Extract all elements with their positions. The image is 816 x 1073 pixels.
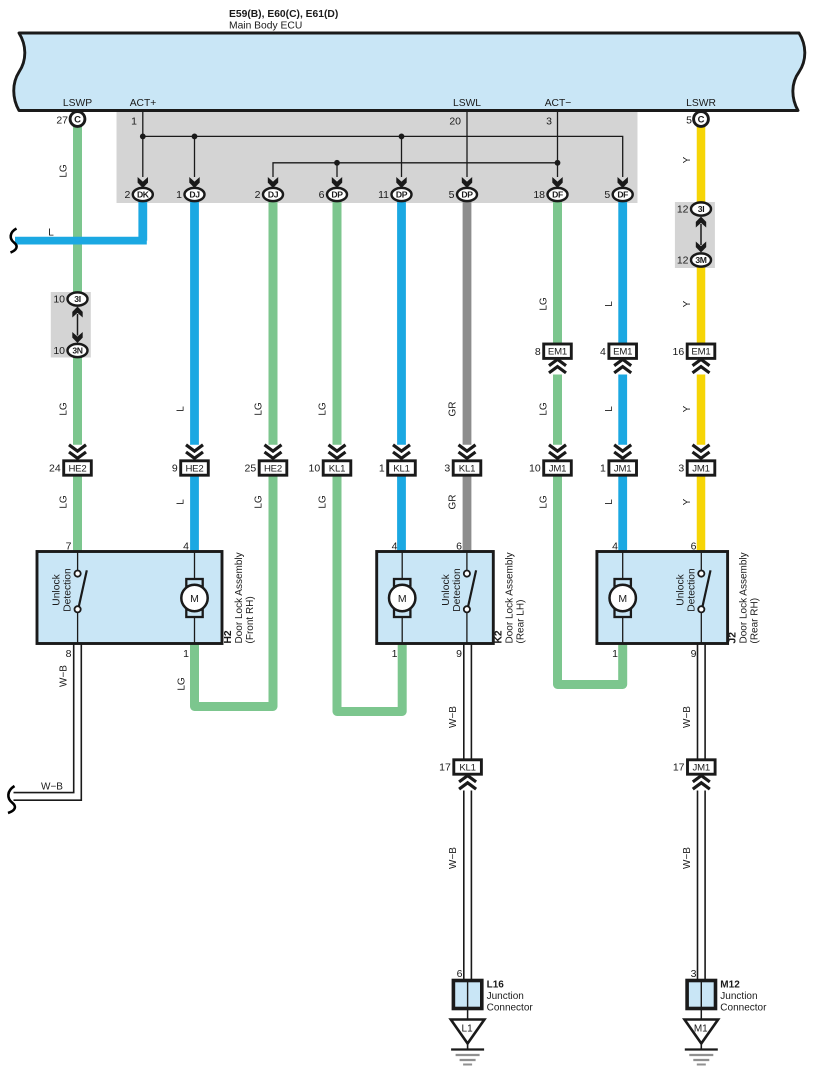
- svg-text:Y: Y: [682, 156, 693, 163]
- svg-text:Detection: Detection: [452, 568, 463, 612]
- svg-text:LSWR: LSWR: [686, 98, 716, 109]
- svg-text:1: 1: [392, 648, 398, 660]
- svg-text:Detection: Detection: [686, 568, 697, 612]
- svg-text:17: 17: [673, 762, 685, 774]
- svg-text:Junction: Junction: [487, 991, 524, 1002]
- svg-text:(Front RH): (Front RH): [245, 596, 256, 643]
- svg-text:DF: DF: [552, 190, 563, 200]
- svg-text:W−B: W−B: [59, 665, 70, 687]
- svg-text:6: 6: [319, 189, 325, 201]
- svg-text:M: M: [618, 593, 627, 605]
- svg-text:W−B: W−B: [448, 706, 459, 728]
- svg-text:4: 4: [183, 541, 189, 553]
- svg-text:KL1: KL1: [459, 463, 475, 474]
- svg-text:L: L: [48, 228, 54, 239]
- svg-text:9: 9: [172, 463, 178, 475]
- svg-text:EM1: EM1: [613, 347, 632, 358]
- svg-text:Detection: Detection: [63, 568, 74, 612]
- svg-text:3I: 3I: [74, 294, 80, 304]
- svg-text:11: 11: [378, 189, 389, 201]
- svg-text:LG: LG: [59, 402, 70, 416]
- svg-text:(Rear LH): (Rear LH): [515, 600, 526, 644]
- svg-text:3: 3: [678, 463, 684, 475]
- svg-text:24: 24: [49, 463, 61, 475]
- svg-text:Door Lock Assembly: Door Lock Assembly: [504, 552, 515, 643]
- svg-text:9: 9: [456, 648, 462, 660]
- svg-text:27: 27: [56, 115, 68, 127]
- svg-text:Connector: Connector: [487, 1003, 534, 1014]
- svg-text:17: 17: [439, 762, 451, 774]
- svg-text:L16: L16: [487, 980, 505, 991]
- svg-text:2: 2: [255, 189, 261, 201]
- svg-text:ACT−: ACT−: [545, 98, 572, 109]
- svg-text:DP: DP: [396, 190, 408, 200]
- svg-text:10: 10: [529, 463, 541, 475]
- svg-text:8: 8: [535, 346, 541, 358]
- svg-text:Y: Y: [682, 300, 693, 307]
- svg-text:LG: LG: [539, 297, 550, 311]
- svg-text:L1: L1: [462, 1024, 474, 1035]
- svg-text:3: 3: [691, 968, 697, 980]
- svg-text:3I: 3I: [698, 204, 704, 214]
- svg-text:EM1: EM1: [548, 347, 567, 358]
- svg-text:W−B: W−B: [41, 782, 63, 793]
- svg-text:4: 4: [600, 346, 606, 358]
- svg-text:LG: LG: [59, 495, 70, 509]
- svg-text:M12: M12: [720, 980, 740, 991]
- svg-text:10: 10: [53, 345, 65, 357]
- svg-text:LSWL: LSWL: [453, 98, 481, 109]
- svg-text:C: C: [74, 114, 81, 125]
- svg-text:W−B: W−B: [448, 847, 459, 869]
- svg-text:20: 20: [449, 116, 461, 128]
- svg-text:JM1: JM1: [549, 463, 567, 474]
- svg-text:5: 5: [449, 189, 455, 201]
- svg-text:DJ: DJ: [268, 190, 279, 200]
- svg-text:W−B: W−B: [682, 706, 693, 728]
- svg-text:W−B: W−B: [682, 847, 693, 869]
- svg-text:12: 12: [677, 255, 689, 267]
- svg-text:4: 4: [392, 541, 398, 553]
- svg-text:Y: Y: [682, 405, 693, 412]
- svg-text:LG: LG: [59, 164, 70, 178]
- svg-text:L: L: [604, 406, 615, 412]
- svg-text:DF: DF: [617, 190, 628, 200]
- svg-text:L: L: [176, 406, 187, 412]
- svg-text:DJ: DJ: [189, 190, 200, 200]
- svg-text:1: 1: [176, 189, 182, 201]
- svg-text:JM1: JM1: [614, 463, 632, 474]
- svg-text:8: 8: [66, 648, 72, 660]
- svg-text:(Rear RH): (Rear RH): [750, 598, 761, 644]
- svg-text:Unlock: Unlock: [675, 573, 686, 605]
- svg-text:2: 2: [124, 189, 130, 201]
- svg-text:KL1: KL1: [393, 463, 409, 474]
- svg-text:16: 16: [673, 346, 685, 358]
- svg-text:LG: LG: [254, 495, 265, 509]
- svg-text:GR: GR: [448, 495, 459, 510]
- svg-text:1: 1: [131, 116, 137, 128]
- svg-text:M: M: [190, 593, 199, 605]
- svg-text:EM1: EM1: [691, 347, 710, 358]
- svg-text:9: 9: [691, 648, 697, 660]
- svg-text:3: 3: [444, 463, 450, 475]
- svg-text:5: 5: [604, 189, 610, 201]
- svg-text:1: 1: [183, 648, 189, 660]
- svg-text:L: L: [176, 499, 187, 505]
- svg-text:5: 5: [686, 115, 692, 127]
- svg-text:L: L: [604, 301, 615, 307]
- svg-text:M1: M1: [694, 1024, 708, 1035]
- svg-text:LG: LG: [539, 402, 550, 416]
- svg-text:10: 10: [53, 294, 65, 306]
- svg-text:K2: K2: [493, 630, 504, 643]
- svg-text:LG: LG: [177, 677, 188, 691]
- svg-text:Door Lock Assembly: Door Lock Assembly: [739, 552, 750, 643]
- svg-text:LG: LG: [254, 402, 265, 416]
- svg-text:DP: DP: [461, 190, 473, 200]
- svg-text:18: 18: [533, 189, 545, 201]
- svg-text:C: C: [698, 114, 705, 125]
- svg-text:1: 1: [600, 463, 606, 475]
- svg-text:KL1: KL1: [329, 463, 345, 474]
- svg-text:Unlock: Unlock: [52, 573, 63, 605]
- svg-text:7: 7: [66, 541, 72, 553]
- svg-text:Y: Y: [682, 498, 693, 505]
- svg-text:25: 25: [245, 463, 257, 475]
- svg-text:Unlock: Unlock: [441, 573, 452, 605]
- svg-text:6: 6: [456, 541, 462, 553]
- svg-text:M: M: [398, 593, 407, 605]
- svg-text:LSWP: LSWP: [63, 98, 92, 109]
- svg-text:Door Lock Assembly: Door Lock Assembly: [234, 552, 245, 643]
- svg-text:3M: 3M: [695, 255, 706, 265]
- svg-text:JM1: JM1: [693, 762, 711, 773]
- svg-text:6: 6: [457, 968, 463, 980]
- svg-text:1: 1: [612, 648, 618, 660]
- svg-text:KL1: KL1: [459, 762, 475, 773]
- svg-text:LG: LG: [318, 495, 329, 509]
- svg-text:1: 1: [379, 463, 385, 475]
- svg-text:LG: LG: [539, 495, 550, 509]
- svg-text:JM1: JM1: [692, 463, 710, 474]
- svg-text:3N: 3N: [72, 346, 82, 356]
- svg-text:6: 6: [691, 541, 697, 553]
- svg-text:10: 10: [309, 463, 321, 475]
- svg-text:12: 12: [677, 204, 689, 216]
- svg-text:LG: LG: [318, 402, 329, 416]
- svg-text:DK: DK: [137, 190, 150, 200]
- svg-text:E59(B), E60(C), E61(D): E59(B), E60(C), E61(D): [229, 9, 338, 20]
- svg-text:J2: J2: [728, 632, 739, 644]
- svg-text:HE2: HE2: [68, 463, 86, 474]
- svg-text:HE2: HE2: [264, 463, 282, 474]
- svg-text:GR: GR: [448, 402, 459, 417]
- svg-text:Main Body ECU: Main Body ECU: [229, 21, 302, 32]
- svg-text:HE2: HE2: [185, 463, 203, 474]
- svg-text:H2: H2: [223, 630, 234, 643]
- svg-text:Connector: Connector: [720, 1003, 767, 1014]
- svg-text:ACT+: ACT+: [130, 98, 157, 109]
- svg-text:Junction: Junction: [720, 991, 757, 1002]
- svg-text:3: 3: [546, 116, 552, 128]
- svg-text:L: L: [604, 499, 615, 505]
- svg-text:4: 4: [612, 541, 618, 553]
- svg-text:DP: DP: [331, 190, 343, 200]
